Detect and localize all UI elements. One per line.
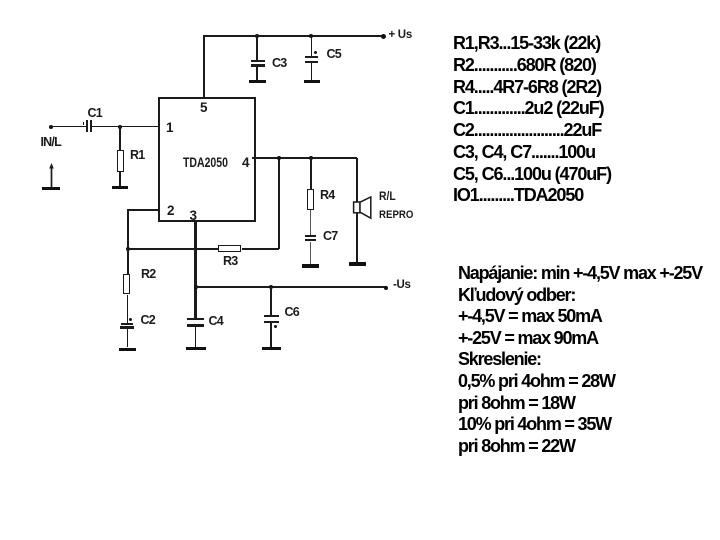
node: junction R2/feedback	[126, 247, 130, 251]
net label +Us	[389, 29, 412, 41]
node: junction C5 on top rail	[309, 34, 313, 38]
ground (speaker)	[349, 262, 366, 265]
ground (C3)	[249, 80, 266, 83]
node: junction C3 on top rail	[255, 34, 259, 38]
wire: pin 2 to left	[127, 209, 159, 211]
net label -Us	[393, 279, 411, 291]
wire: R2 top stem	[127, 249, 129, 274]
label C1	[88, 106, 102, 120]
capacitor C4	[187, 318, 204, 320]
label TDA2050	[183, 155, 228, 171]
capacitor C5 (polarized + mark)	[314, 51, 317, 54]
wire: pin 4 rail to speaker	[252, 157, 357, 159]
pin 3 label	[190, 208, 198, 223]
wire: speaker vertical	[356, 158, 358, 263]
capacitor C6 (polarized)	[264, 315, 280, 317]
text block: specifications	[458, 263, 702, 457]
node: junction R1	[118, 125, 122, 129]
wire: C5 upper stem	[311, 35, 313, 57]
wire: input to C1	[51, 126, 86, 128]
node: input terminal dot	[49, 125, 53, 129]
capacitor C7	[305, 235, 317, 237]
label R1	[130, 148, 144, 162]
label IN/L	[41, 135, 61, 149]
wire: pin 5 vertical to top rail	[203, 35, 205, 97]
resistor R3	[218, 245, 241, 251]
wire: C1 to pin 1	[92, 126, 159, 128]
label C4	[209, 314, 223, 328]
wire: C3 upper stem	[256, 35, 258, 60]
label C5	[327, 47, 341, 61]
capacitor C2 (polarized)	[129, 318, 132, 321]
wire: C6 stem	[270, 287, 272, 315]
label R3	[223, 254, 237, 268]
label C3	[272, 56, 286, 70]
node: +Us terminal dot	[381, 34, 386, 39]
capacitor C3	[251, 60, 265, 62]
wire: -Us rail	[195, 286, 387, 288]
ground (C4)	[186, 347, 206, 350]
wire: R1 bottom stem	[119, 172, 121, 186]
ground (C5)	[304, 80, 320, 83]
label C2	[141, 313, 155, 327]
resistor R4	[307, 189, 314, 211]
pin 2 label	[167, 203, 175, 218]
text block: component values	[453, 33, 611, 207]
ground (R1)	[112, 186, 128, 189]
resistor R1	[117, 150, 124, 172]
node: junction feedback on pin4 rail	[277, 156, 281, 160]
pin 4 label	[242, 155, 250, 170]
ground (C7)	[302, 264, 319, 267]
speaker R/L REPRO	[351, 195, 375, 221]
pin 1 label	[166, 120, 174, 135]
wire: pin 2 vertical down	[127, 209, 129, 249]
node: -Us end mark	[384, 286, 388, 290]
resistor R2	[123, 274, 130, 294]
wire: pin 3 vertical (thick)	[194, 222, 197, 319]
ground (input) with arrow	[47, 162, 57, 188]
op-amp U1: TDA2050 IC body	[158, 97, 256, 222]
ground (C2)	[119, 348, 136, 351]
wire: R4 top stem	[310, 158, 312, 189]
node: junction C6 on -Us rail	[269, 285, 273, 289]
label R2	[141, 267, 155, 281]
wire: +Us top rail	[203, 35, 384, 37]
pin 5 label	[200, 100, 208, 115]
wire: feedback rail right segment	[242, 248, 279, 250]
wire: feedback vertical to pin4 rail	[278, 158, 280, 249]
label R4	[320, 188, 334, 202]
label C7	[323, 229, 337, 243]
label R/L	[379, 191, 396, 203]
label REPRO	[379, 209, 413, 221]
wire: R4 to C7	[310, 210, 311, 235]
node: junction pin3/-Us rail	[194, 285, 198, 289]
capacitor C1	[86, 120, 88, 133]
ground (C6)	[262, 347, 281, 350]
node: junction R4 on pin4 rail	[309, 156, 313, 160]
wire: R1 top stem	[119, 126, 121, 150]
label C6	[285, 305, 299, 319]
wire: feedback rail left segment	[127, 248, 218, 250]
wire: R2 to C2	[127, 295, 129, 323]
